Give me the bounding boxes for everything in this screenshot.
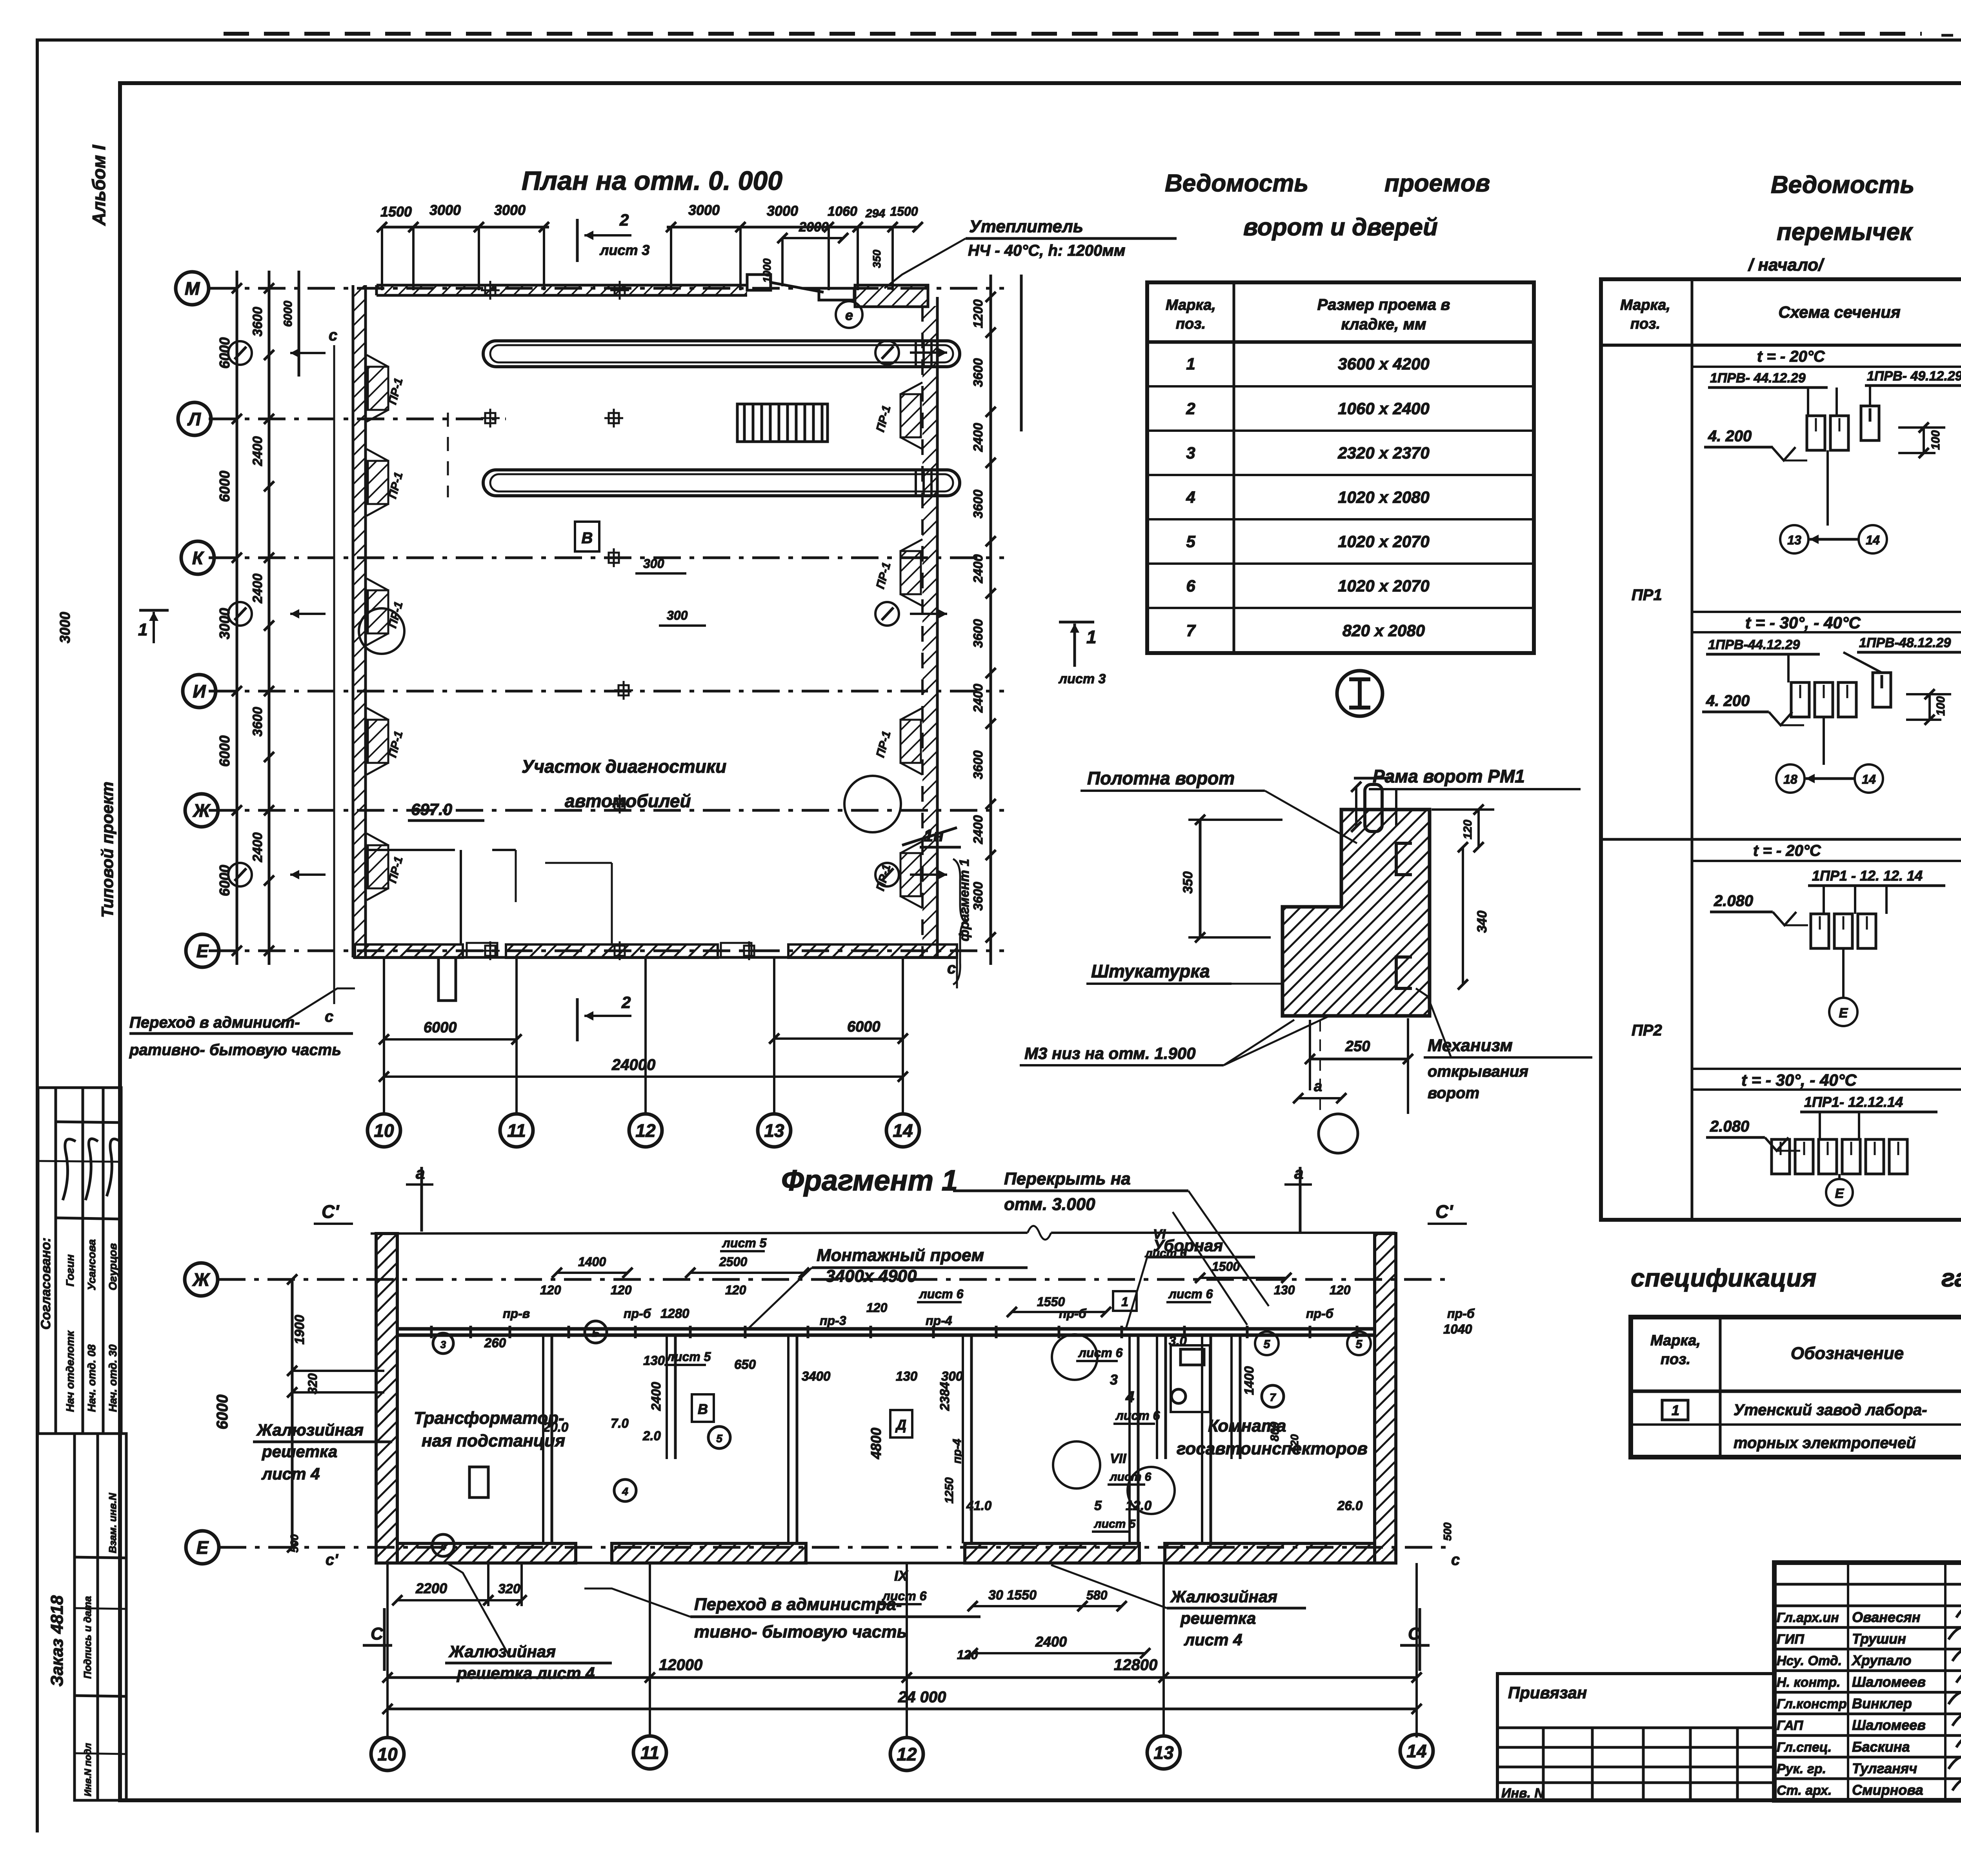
stair bbox=[737, 404, 828, 442]
svg-text:лист 5: лист 5 bbox=[1093, 1518, 1136, 1530]
svg-text:120: 120 bbox=[1461, 820, 1474, 839]
svg-text:12: 12 bbox=[635, 1121, 656, 1141]
opening note 2000 bbox=[782, 237, 843, 239]
fragment bottom wall segments bbox=[397, 1543, 576, 1563]
svg-text:Альбом I: Альбом I bbox=[89, 144, 109, 226]
svg-text:Полотна ворот: Полотна ворот bbox=[1087, 768, 1235, 788]
svg-text:лист 6: лист 6 bbox=[1144, 1247, 1187, 1260]
svg-text:2500: 2500 bbox=[719, 1255, 747, 1269]
svg-text:14: 14 bbox=[1862, 772, 1876, 786]
svg-text:Ведомость: Ведомость bbox=[1771, 171, 1914, 198]
svg-text:1020 х 2070: 1020 х 2070 bbox=[1338, 577, 1430, 595]
svg-text:2400: 2400 bbox=[971, 684, 985, 713]
svg-text:6000: 6000 bbox=[214, 1395, 231, 1430]
axis circle Ж bbox=[185, 794, 218, 827]
svg-text:Переход в администра-: Переход в администра- bbox=[694, 1595, 902, 1614]
svg-text:1: 1 bbox=[1121, 1295, 1128, 1309]
boxed В mark fragment bbox=[692, 1394, 714, 1422]
svg-text:торных электропечей: торных электропечей bbox=[1734, 1434, 1916, 1452]
svg-text:2400: 2400 bbox=[971, 423, 985, 452]
svg-text:10: 10 bbox=[374, 1121, 394, 1141]
svg-text:3: 3 bbox=[1110, 1372, 1118, 1388]
svg-text:26.0: 26.0 bbox=[1337, 1498, 1363, 1513]
svg-text:3600: 3600 bbox=[971, 358, 985, 387]
svg-text:1500: 1500 bbox=[380, 204, 412, 220]
svg-text:Жалюзийная: Жалюзийная bbox=[256, 1421, 364, 1439]
svg-text:лист 6: лист 6 bbox=[1168, 1287, 1213, 1301]
svg-text:4. 200: 4. 200 bbox=[1708, 428, 1752, 445]
svg-text:3000: 3000 bbox=[767, 203, 798, 219]
svg-text:2: 2 bbox=[619, 211, 629, 229]
svg-text:М: М bbox=[185, 278, 200, 299]
svg-text:340: 340 bbox=[1475, 911, 1490, 933]
axis circle Л bbox=[178, 402, 211, 435]
svg-text:11: 11 bbox=[640, 1743, 659, 1763]
svg-text:2400: 2400 bbox=[1035, 1634, 1067, 1650]
svg-text:Рама ворот РМ1: Рама ворот РМ1 bbox=[1373, 766, 1525, 786]
fragment left dims bbox=[291, 1279, 294, 1547]
ПР1 section t=-30 -40 bbox=[1692, 611, 1961, 613]
svg-text:с: с bbox=[1451, 1551, 1460, 1568]
svg-text:Жалюзийная: Жалюзийная bbox=[1170, 1587, 1277, 1606]
svg-text:Е: Е bbox=[1839, 1006, 1848, 1021]
circled е mark plan top right bbox=[836, 301, 862, 328]
svg-text:Перекрыть на: Перекрыть на bbox=[1004, 1169, 1131, 1188]
svg-text:пр-4: пр-4 bbox=[926, 1314, 952, 1328]
svg-text:лист 6: лист 6 bbox=[919, 1287, 964, 1301]
fragment axis circles bbox=[371, 1738, 404, 1770]
node circle I bbox=[1337, 671, 1383, 716]
svg-text:130: 130 bbox=[1274, 1283, 1295, 1297]
svg-text:1ПР1- 12.12.14: 1ПР1- 12.12.14 bbox=[1804, 1094, 1903, 1110]
svg-text:120: 120 bbox=[957, 1648, 978, 1662]
node circle bottom bbox=[1319, 1114, 1358, 1153]
svg-text:6000: 6000 bbox=[216, 735, 233, 767]
svg-text:Утенский завод лабора-: Утенский завод лабора- bbox=[1734, 1401, 1927, 1419]
svg-text:120: 120 bbox=[611, 1283, 632, 1297]
svg-text:1500: 1500 bbox=[1212, 1259, 1240, 1274]
svg-text:Винклер: Винклер bbox=[1852, 1696, 1912, 1712]
svg-text:30 1550: 30 1550 bbox=[988, 1588, 1037, 1603]
svg-text:2400: 2400 bbox=[250, 573, 265, 604]
plan bottom wall segments bbox=[355, 944, 463, 958]
svg-text:Размер проема в: Размер проема в bbox=[1317, 296, 1450, 313]
svg-text:Шаломеев: Шаломеев bbox=[1852, 1674, 1926, 1690]
svg-text:3600: 3600 bbox=[971, 750, 985, 779]
svg-text:6000: 6000 bbox=[282, 300, 295, 327]
openings table bbox=[1147, 282, 1534, 653]
ПР2 section t=-20 bbox=[1692, 860, 1961, 862]
svg-text:260: 260 bbox=[484, 1336, 506, 1350]
svg-text:3000: 3000 bbox=[57, 612, 73, 643]
fragment bottom dims bbox=[387, 1676, 1417, 1679]
svg-text:350: 350 bbox=[1181, 872, 1195, 894]
svg-text:с': с' bbox=[326, 1551, 338, 1568]
svg-text:2400: 2400 bbox=[649, 1382, 663, 1411]
svg-text:t = - 30°, - 40°С: t = - 30°, - 40°С bbox=[1741, 1071, 1857, 1089]
svg-text:5: 5 bbox=[1264, 1338, 1271, 1351]
interior partitions bbox=[542, 1335, 544, 1543]
svg-text:тивно- бытовую часть: тивно- бытовую часть bbox=[694, 1622, 907, 1641]
svg-text:ворот: ворот bbox=[1428, 1084, 1479, 1102]
lintel marks left wall bbox=[367, 355, 388, 422]
svg-text:Согласовано:: Согласовано: bbox=[38, 1237, 53, 1330]
svg-text:294: 294 bbox=[865, 207, 885, 220]
svg-text:перемычек: перемычек bbox=[1777, 218, 1913, 246]
svg-text:Д: Д bbox=[895, 1417, 906, 1433]
svg-text:12800: 12800 bbox=[1114, 1656, 1157, 1674]
svg-text:3: 3 bbox=[440, 1339, 446, 1350]
svg-text:3000: 3000 bbox=[688, 202, 720, 218]
svg-text:проемов: проемов bbox=[1384, 170, 1490, 197]
spec table bbox=[1631, 1317, 1961, 1457]
circles 13 14 bbox=[1780, 525, 1808, 553]
svg-text:500: 500 bbox=[288, 1534, 300, 1552]
svg-text:Б: Б bbox=[592, 1327, 600, 1339]
svg-text:Е: Е bbox=[1835, 1186, 1845, 1201]
circled marks in fragment bbox=[585, 1321, 607, 1343]
svg-text:ративно- бытовую часть: ративно- бытовую часть bbox=[129, 1041, 341, 1059]
svg-text:3600 х 4200: 3600 х 4200 bbox=[1338, 355, 1430, 373]
svg-text:500: 500 bbox=[1441, 1522, 1453, 1541]
svg-text:13: 13 bbox=[764, 1121, 784, 1141]
column markers bbox=[481, 289, 500, 291]
axis circle Е bbox=[186, 934, 219, 967]
svg-text:С: С bbox=[371, 1624, 384, 1643]
PLAN: axis circle М bbox=[176, 272, 209, 305]
svg-text:120: 120 bbox=[540, 1283, 561, 1297]
door sill marks bottom wall bbox=[467, 943, 497, 957]
svg-text:Гогин: Гогин bbox=[64, 1254, 76, 1286]
svg-text:спецификация: спецификация bbox=[1631, 1264, 1816, 1292]
svg-text:2.080: 2.080 bbox=[1714, 892, 1753, 910]
plan right wall bbox=[936, 297, 939, 957]
svg-text:лист 3: лист 3 bbox=[1058, 671, 1106, 686]
signature squiggles bbox=[1948, 1604, 1961, 1790]
svg-text:t = - 20°С: t = - 20°С bbox=[1757, 348, 1825, 365]
svg-text:6000: 6000 bbox=[424, 1019, 457, 1036]
svg-text:Привязан: Привязан bbox=[1508, 1683, 1587, 1702]
section mark 2 / лист 3 top bbox=[576, 219, 579, 262]
svg-text:с: с bbox=[947, 960, 956, 977]
svg-text:с: с bbox=[329, 327, 337, 344]
svg-text:2.080: 2.080 bbox=[1710, 1118, 1749, 1135]
svg-text:Ж: Ж bbox=[193, 801, 211, 821]
stamp box Согласовано bbox=[38, 1088, 121, 1434]
svg-text:1020 х 2070: 1020 х 2070 bbox=[1338, 532, 1430, 551]
svg-text:2400: 2400 bbox=[250, 832, 265, 862]
section mark 1 left bbox=[153, 612, 155, 643]
svg-text:решетка: решетка bbox=[262, 1442, 337, 1461]
svg-text:НЧ - 40°С, h: 1200мм: НЧ - 40°С, h: 1200мм bbox=[968, 242, 1125, 259]
svg-text:Ст. арх.: Ст. арх. bbox=[1777, 1783, 1832, 1798]
svg-text:Марка,: Марка, bbox=[1620, 297, 1670, 313]
svg-text:10: 10 bbox=[377, 1744, 398, 1765]
svg-text:4: 4 bbox=[1186, 488, 1195, 506]
svg-text:отм. 3.000: отм. 3.000 bbox=[1004, 1195, 1095, 1214]
svg-text:320: 320 bbox=[498, 1581, 520, 1596]
svg-text:2000: 2000 bbox=[799, 220, 829, 235]
svg-text:580: 580 bbox=[1086, 1588, 1108, 1602]
svg-text:3400х 4900: 3400х 4900 bbox=[826, 1266, 917, 1286]
svg-text:t = - 30°, - 40°С: t = - 30°, - 40°С bbox=[1745, 613, 1861, 632]
svg-text:открывания: открывания bbox=[1428, 1063, 1528, 1080]
svg-text:лист 4: лист 4 bbox=[1184, 1630, 1242, 1649]
svg-text:С': С' bbox=[322, 1201, 340, 1222]
svg-text:320: 320 bbox=[306, 1373, 320, 1394]
svg-text:820 х 2080: 820 х 2080 bbox=[1343, 621, 1425, 640]
svg-text:Ованесян: Ованесян bbox=[1852, 1609, 1921, 1625]
svg-text:1200: 1200 bbox=[971, 299, 985, 328]
svg-text:14: 14 bbox=[893, 1121, 913, 1141]
svg-text:пр-б: пр-б bbox=[624, 1306, 651, 1321]
top scan noise dashed line bbox=[224, 32, 1922, 36]
svg-text:2400: 2400 bbox=[971, 554, 985, 584]
svg-text:5: 5 bbox=[1094, 1498, 1102, 1513]
svg-text:Марка,: Марка, bbox=[1650, 1332, 1701, 1349]
svg-text:6000: 6000 bbox=[847, 1019, 880, 1035]
svg-text:100: 100 bbox=[1934, 696, 1947, 716]
boxed 1 mark bbox=[1113, 1291, 1137, 1311]
svg-text:1ПРВ- 44.12.29: 1ПРВ- 44.12.29 bbox=[1710, 371, 1806, 386]
svg-text:130: 130 bbox=[896, 1369, 918, 1383]
gate frame profile bbox=[1282, 810, 1341, 907]
svg-text:4: 4 bbox=[440, 1540, 446, 1552]
svg-text:1020 х 2080: 1020 х 2080 bbox=[1338, 488, 1430, 506]
dim 250 bbox=[1310, 1058, 1408, 1061]
svg-text:3600: 3600 bbox=[971, 489, 985, 519]
svg-text:пр-в: пр-в bbox=[503, 1306, 530, 1321]
svg-text:300: 300 bbox=[667, 608, 688, 622]
svg-text:7: 7 bbox=[1186, 621, 1196, 640]
svg-text:Переход в админист-: Переход в админист- bbox=[129, 1014, 300, 1031]
svg-text:Усансова: Усансова bbox=[85, 1239, 98, 1290]
top wall door opening bbox=[747, 275, 771, 290]
svg-text:ГАП: ГАП bbox=[1777, 1718, 1804, 1733]
dim 2200 320 bbox=[397, 1599, 488, 1601]
section mark 1 лист 3 middle bbox=[1073, 624, 1076, 667]
svg-text:14: 14 bbox=[1866, 533, 1880, 547]
small wall stub below E bbox=[438, 957, 456, 1001]
svg-text:5: 5 bbox=[1186, 532, 1195, 551]
svg-text:t = - 20°С: t = - 20°С bbox=[1753, 842, 1821, 859]
svg-text:Гл.констр: Гл.констр bbox=[1777, 1697, 1847, 1712]
svg-text:1ПРВ-44.12.29: 1ПРВ-44.12.29 bbox=[1708, 637, 1800, 652]
svg-text:Е: Е bbox=[196, 941, 209, 961]
svg-text:Тулганяч: Тулганяч bbox=[1852, 1760, 1917, 1776]
svg-text:1250: 1250 bbox=[943, 1477, 956, 1503]
svg-text:решетка: решетка bbox=[1180, 1609, 1256, 1627]
svg-text:ГИП: ГИП bbox=[1777, 1632, 1805, 1647]
svg-text:Рук. гр.: Рук. гр. bbox=[1777, 1761, 1826, 1776]
svg-text:Н. контр.: Н. контр. bbox=[1777, 1675, 1840, 1690]
svg-text:е: е bbox=[845, 307, 853, 323]
svg-text:ПР2: ПР2 bbox=[1632, 1022, 1662, 1039]
svg-text:1ПРВ- 49.12.29: 1ПРВ- 49.12.29 bbox=[1867, 369, 1961, 384]
svg-text:1: 1 bbox=[1186, 355, 1195, 373]
inspection trench 2 bbox=[483, 470, 960, 496]
fragment axis Е bbox=[219, 1546, 1447, 1549]
svg-text:Л: Л bbox=[187, 409, 201, 429]
svg-text:130: 130 bbox=[643, 1353, 665, 1368]
svg-text:2: 2 bbox=[1186, 399, 1195, 418]
svg-text:1: 1 bbox=[1672, 1402, 1679, 1418]
node circle on left wall bbox=[359, 608, 404, 654]
В boxed mark bbox=[575, 522, 599, 551]
svg-text:1ПР1 - 12. 12. 14: 1ПР1 - 12. 12. 14 bbox=[1812, 868, 1923, 884]
svg-text:автомобилей: автомобилей bbox=[565, 791, 691, 811]
svg-text:С': С' bbox=[1435, 1201, 1453, 1222]
svg-text:Участок диагностики: Участок диагностики bbox=[522, 756, 726, 777]
stamp box bottom left bbox=[75, 1434, 126, 1800]
svg-text:VI: VI bbox=[1153, 1227, 1166, 1242]
svg-text:лист 6: лист 6 bbox=[1115, 1408, 1160, 1423]
svg-text:1400: 1400 bbox=[1242, 1366, 1256, 1395]
fragment top line bbox=[371, 1233, 1028, 1234]
axis lines horizontal bbox=[209, 287, 1004, 290]
sanitary fixtures area bbox=[1171, 1345, 1210, 1412]
signature table bbox=[1847, 1563, 1849, 1800]
svg-text:4. 200: 4. 200 bbox=[1706, 692, 1750, 710]
svg-text:300: 300 bbox=[643, 557, 664, 571]
svg-text:3600: 3600 bbox=[250, 707, 265, 737]
svg-text:лист 5: лист 5 bbox=[722, 1236, 767, 1250]
svg-text:лист 6: лист 6 bbox=[882, 1589, 927, 1603]
svg-text:ПР1: ПР1 bbox=[1632, 586, 1662, 604]
svg-text:лист 4: лист 4 bbox=[261, 1465, 320, 1483]
svg-text:6: 6 bbox=[1186, 577, 1195, 595]
svg-text:3400: 3400 bbox=[802, 1369, 831, 1383]
svg-text:Взам. инв.N: Взам. инв.N bbox=[107, 1492, 118, 1553]
svg-text:3000: 3000 bbox=[494, 202, 526, 218]
svg-text:12000: 12000 bbox=[659, 1656, 702, 1674]
row divider ПР1/ПР2 bbox=[1601, 838, 1961, 841]
gate leaf bbox=[1365, 784, 1382, 832]
svg-text:Инв. N: Инв. N bbox=[1501, 1786, 1544, 1801]
svg-text:Огурцов: Огурцов bbox=[107, 1243, 119, 1290]
plan bottom dimensions bbox=[384, 1038, 517, 1041]
svg-text:К: К bbox=[192, 548, 204, 568]
svg-text:И: И bbox=[193, 681, 206, 702]
gate wall section bbox=[1282, 810, 1430, 1016]
svg-text:пр-3: пр-3 bbox=[820, 1314, 846, 1328]
trench2 right hatch bbox=[915, 471, 917, 495]
svg-text:1400: 1400 bbox=[578, 1255, 606, 1269]
svg-text:2.0: 2.0 bbox=[642, 1428, 661, 1443]
fragment left wall bbox=[376, 1234, 397, 1563]
svg-text:Хрупало: Хрупало bbox=[1851, 1652, 1911, 1668]
svg-text:2384: 2384 bbox=[937, 1382, 952, 1411]
svg-text:Штукатурка: Штукатурка bbox=[1091, 961, 1210, 981]
svg-text:Баскина: Баскина bbox=[1852, 1739, 1910, 1755]
svg-text:пр-б: пр-б bbox=[1447, 1306, 1475, 1321]
ПР1 section t=-20 bbox=[1692, 366, 1961, 368]
svg-text:4: 4 bbox=[1125, 1388, 1134, 1406]
lintel table 1 bbox=[1601, 279, 1961, 1220]
plan top dimension chain bbox=[382, 226, 549, 229]
svg-text:Трушин: Трушин bbox=[1852, 1630, 1906, 1647]
svg-text:300: 300 bbox=[941, 1369, 963, 1383]
plan left wall bbox=[352, 285, 355, 957]
svg-text:5: 5 bbox=[716, 1432, 722, 1445]
dim 30 1550 580 bbox=[973, 1605, 1082, 1607]
axis circle К bbox=[181, 541, 214, 574]
svg-text:1ПРВ-48.12.29: 1ПРВ-48.12.29 bbox=[1859, 635, 1951, 650]
svg-text:697.0: 697.0 bbox=[411, 800, 452, 819]
svg-text:2400: 2400 bbox=[971, 815, 985, 844]
fragment axis Ж bbox=[218, 1278, 1447, 1281]
node circle bottom right + 1н bbox=[844, 776, 901, 832]
svg-text:Заказ 4818: Заказ 4818 bbox=[47, 1595, 67, 1687]
svg-text:41.0: 41.0 bbox=[966, 1498, 992, 1513]
Привязан revision block bbox=[1497, 1674, 1774, 1800]
dashed guide near stair bbox=[447, 413, 449, 497]
svg-text:Нсу. Отд.: Нсу. Отд. bbox=[1777, 1653, 1842, 1668]
svg-text:/ начало/: / начало/ bbox=[1748, 255, 1825, 275]
svg-text:1040: 1040 bbox=[1443, 1322, 1472, 1336]
svg-text:2: 2 bbox=[621, 993, 631, 1012]
dim 120 2400 bbox=[973, 1652, 1145, 1654]
svg-text:госавтоинспекторов: госавтоинспекторов bbox=[1177, 1439, 1368, 1458]
svg-text:1500: 1500 bbox=[890, 204, 918, 218]
plan axis circles bottom bbox=[367, 1114, 400, 1147]
svg-text:6000: 6000 bbox=[216, 471, 233, 502]
signatures bbox=[63, 1139, 120, 1200]
svg-text:1: 1 bbox=[138, 620, 147, 639]
plan right dimension chain bbox=[990, 275, 992, 965]
svg-text:Фрагмент 1: Фрагмент 1 bbox=[781, 1164, 958, 1197]
svg-text:24000: 24000 bbox=[611, 1056, 655, 1074]
svg-text:120: 120 bbox=[1330, 1283, 1351, 1297]
plan left dimension chains bbox=[236, 271, 238, 965]
svg-text:лист 5: лист 5 bbox=[666, 1350, 711, 1364]
lintel marks right wall bbox=[900, 382, 922, 449]
svg-text:Утеплитель: Утеплитель bbox=[969, 217, 1083, 236]
svg-text:Нач. отд. 30: Нач. отд. 30 bbox=[107, 1344, 119, 1412]
svg-text:1900: 1900 bbox=[292, 1315, 307, 1345]
svg-text:350: 350 bbox=[871, 249, 883, 268]
svg-text:120: 120 bbox=[1288, 1434, 1301, 1452]
fragment right wall bbox=[1375, 1234, 1396, 1563]
svg-text:кладке, мм: кладке, мм bbox=[1341, 316, 1426, 333]
svg-text:3600: 3600 bbox=[971, 882, 985, 911]
svg-text:1060: 1060 bbox=[828, 204, 857, 219]
dim 350 bbox=[1188, 819, 1282, 821]
svg-text:12: 12 bbox=[897, 1744, 917, 1765]
svg-text:1060 х 2400: 1060 х 2400 bbox=[1338, 399, 1430, 418]
svg-text:Ведомость: Ведомость bbox=[1165, 170, 1308, 197]
svg-text:пр-4: пр-4 bbox=[951, 1439, 964, 1464]
svg-text:100: 100 bbox=[1929, 430, 1942, 450]
stamp extra row lines bbox=[75, 1608, 126, 1609]
svg-text:1: 1 bbox=[1086, 627, 1097, 647]
svg-text:2400: 2400 bbox=[250, 436, 265, 466]
svg-text:решетка лист 4: решетка лист 4 bbox=[457, 1664, 595, 1682]
boxed Д mark fragment bbox=[890, 1410, 912, 1437]
svg-text:250: 250 bbox=[1345, 1038, 1370, 1055]
svg-text:В: В bbox=[698, 1401, 708, 1417]
ПР2 section t=-30 -40 bbox=[1692, 1068, 1961, 1070]
svg-text:Монтажный проем: Монтажный проем bbox=[817, 1246, 984, 1265]
svg-text:План на отм. 0. 000: План на отм. 0. 000 bbox=[522, 166, 782, 196]
fragment lintel band bbox=[397, 1327, 1375, 1331]
svg-text:13: 13 bbox=[1787, 533, 1801, 547]
svg-text:поз.: поз. bbox=[1176, 316, 1206, 332]
wall hatch fills plan bbox=[377, 285, 747, 295]
section trace c left plan bbox=[333, 345, 335, 1004]
trench1 right hatch bbox=[915, 342, 917, 366]
svg-text:1280: 1280 bbox=[660, 1306, 689, 1321]
